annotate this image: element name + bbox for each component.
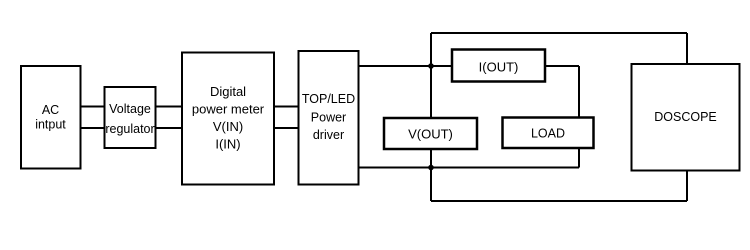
svg-text:power meter: power meter [192, 102, 265, 117]
junction node B [428, 165, 434, 171]
wire I(OUT) right to LOAD corner [545, 65, 579, 67]
wire Voltage regulator to Digital power meter (top) [155, 106, 183, 108]
wire drop from top bus into DOSCOPE top [686, 33, 688, 65]
wire bottom bus from TOP/LED driver through node B [358, 167, 579, 169]
wire node B down to return bus [430, 168, 432, 202]
svg-text:AC: AC [42, 103, 59, 117]
wire top bus to DOSCOPE [431, 32, 687, 34]
wire TOP/LED driver to I(OUT) through node A [358, 65, 452, 67]
svg-text:DOSCOPE: DOSCOPE [654, 110, 717, 124]
block V(OUT) [384, 118, 477, 149]
wire vertical at node A up to top bus and down to V(OUT) [430, 33, 432, 118]
wire AC input to Voltage regulator (top) [80, 106, 105, 108]
block Voltage regulator [105, 87, 156, 148]
wire LOAD bottom down to bottom bus [578, 149, 580, 168]
wire DOSCOPE bottom down to return bus [686, 170, 688, 202]
wire AC input to Voltage regulator (bottom) [80, 127, 105, 129]
wire Digital power meter to TOP/LED driver (top) [273, 106, 300, 108]
svg-text:Digital: Digital [210, 84, 246, 99]
block Digital power meter [182, 53, 274, 185]
wire down to LOAD top [578, 66, 580, 118]
block LOAD [503, 118, 594, 149]
svg-text:Power: Power [311, 111, 346, 125]
junction node A [428, 63, 434, 69]
block AC input [21, 66, 81, 169]
svg-text:intput: intput [35, 118, 66, 132]
svg-text:I(IN): I(IN) [215, 137, 240, 152]
svg-text:V(OUT): V(OUT) [408, 127, 453, 142]
svg-text:LOAD: LOAD [531, 127, 565, 141]
block I(OUT) [452, 50, 545, 82]
svg-text:regulator: regulator [105, 122, 154, 136]
wire Voltage regulator to Digital power meter (bottom) [155, 127, 183, 129]
svg-text:Voltage: Voltage [109, 102, 151, 116]
svg-text:driver: driver [313, 128, 344, 142]
svg-text:I(OUT): I(OUT) [479, 60, 519, 75]
svg-text:TOP/LED: TOP/LED [302, 92, 355, 106]
block TOP/LED Power driver [299, 51, 359, 185]
wire V(OUT) bottom to node B [430, 149, 432, 168]
wire bottom return bus [431, 200, 687, 202]
svg-text:V(IN): V(IN) [213, 119, 243, 134]
wire Digital power meter to TOP/LED driver (bottom) [273, 127, 300, 129]
block DOSCOPE [632, 64, 740, 171]
